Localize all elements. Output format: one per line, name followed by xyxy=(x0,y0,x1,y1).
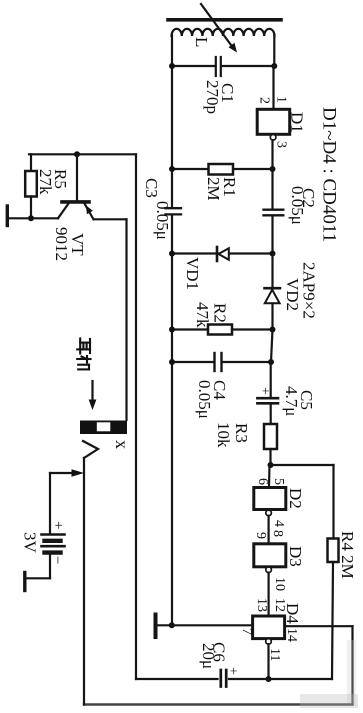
wire: VD1 row xyxy=(172,252,273,254)
node: C4 right xyxy=(268,359,274,365)
wire: right rail C2 to VD1 row xyxy=(271,216,273,253)
svg-text:D3: D3 xyxy=(286,546,305,567)
wire: left rail from coil to C3 xyxy=(171,35,173,207)
svg-text:20μ: 20μ xyxy=(199,643,218,669)
svg-text:13: 13 xyxy=(254,598,269,612)
jack contact chevron xyxy=(83,441,98,458)
node: tank left junction xyxy=(169,63,175,69)
wire: right rail C4 to C5 xyxy=(271,330,273,363)
svg-text:+: + xyxy=(225,667,240,675)
arrow to earphone jack xyxy=(91,381,93,402)
node: pin11 / C6 junction xyxy=(266,676,272,682)
svg-text:VD2: VD2 xyxy=(283,278,302,311)
wire: base bias top wire xyxy=(29,153,136,155)
gate D1 xyxy=(257,109,290,134)
svg-text:270p: 270p xyxy=(203,80,222,114)
capacitor C5 electrolytic xyxy=(257,397,278,400)
diode VD2 on right rail xyxy=(265,287,281,290)
wire: D2 input xyxy=(268,465,271,488)
D2 output bubble xyxy=(266,510,272,516)
wire: R2 row xyxy=(172,328,273,330)
svg-text:D2: D2 xyxy=(286,488,305,509)
svg-text:3V: 3V xyxy=(21,532,40,554)
wire: C4 row xyxy=(172,361,213,363)
node: VD1 left xyxy=(169,251,175,257)
wire: right rail R1 row to C2 xyxy=(271,169,273,209)
resistor R5 xyxy=(30,154,32,171)
tuning arrow across coil xyxy=(201,4,231,45)
wire: battery positive with arrow xyxy=(50,472,74,474)
svg-text:VD1: VD1 xyxy=(183,257,202,290)
svg-text:9: 9 xyxy=(253,532,268,539)
gate D2 xyxy=(254,488,286,510)
svg-text:+: + xyxy=(50,521,66,529)
wire: R1 row xyxy=(172,168,273,170)
wire: long rail from base node down to C6 xyxy=(135,154,137,679)
svg-text:R3: R3 xyxy=(232,423,251,443)
wire: D4 out down xyxy=(267,644,269,679)
resistor R3 xyxy=(264,424,277,449)
node: D2 input / feedback tap xyxy=(268,462,274,468)
svg-text:5: 5 xyxy=(271,478,286,485)
diode VD1 xyxy=(216,247,219,261)
battery 3V xyxy=(42,533,65,536)
wire: tank circuit horizontal with C1 gap xyxy=(172,65,215,67)
svg-text:6: 6 xyxy=(255,478,270,485)
resistor R4 xyxy=(328,539,339,563)
node: left rail / ground junction xyxy=(169,622,175,628)
label 耳机 (earphone) drawn strokes xyxy=(77,339,90,370)
svg-text:10: 10 xyxy=(272,577,287,591)
gate D3 xyxy=(254,544,286,567)
wire: D1 output down to R1 row xyxy=(271,140,273,169)
node: base wire junction xyxy=(74,151,80,157)
node: R2 left xyxy=(169,327,175,333)
resistor R1 xyxy=(209,164,234,175)
svg-text:L: L xyxy=(192,37,211,47)
svg-text:4: 4 xyxy=(271,520,286,527)
svg-text:0.05μ: 0.05μ xyxy=(288,186,307,225)
svg-text:D4: D4 xyxy=(283,603,302,624)
wire: right rail VD2 to R2 row xyxy=(271,304,273,330)
inductor L coil xyxy=(172,29,275,36)
svg-text:2M: 2M xyxy=(204,177,223,201)
wire: emitter to earphone rail xyxy=(94,218,127,220)
D4 output bubble xyxy=(266,639,272,645)
svg-text:7: 7 xyxy=(239,628,254,635)
gate D4 xyxy=(253,616,285,639)
wire: C6 row xyxy=(136,678,218,680)
capacitor C1 xyxy=(215,57,217,76)
svg-text:9012: 9012 xyxy=(52,227,71,261)
svg-text:2: 2 xyxy=(257,97,272,104)
svg-text:27k: 27k xyxy=(36,169,55,195)
capacitor C3 on left rail xyxy=(166,207,182,209)
svg-text:C3: C3 xyxy=(142,178,161,198)
svg-text:+: + xyxy=(257,387,272,395)
svg-text:0.05μ: 0.05μ xyxy=(153,201,172,240)
D3 output bubble xyxy=(266,567,272,573)
transistor VT 9012 xyxy=(76,154,78,200)
wire: positive rail down from contact xyxy=(83,458,85,705)
svg-text:D1: D1 xyxy=(288,112,307,133)
wire: right coil end down to tank wire xyxy=(273,35,275,66)
ground at D4 pin 7 xyxy=(154,615,158,638)
wire: feedback to R4 xyxy=(271,464,334,466)
wire: D2 out to D3 in xyxy=(268,516,270,544)
D1 output bubble xyxy=(270,135,276,141)
wire: D3 out to D4 in xyxy=(268,573,270,616)
wire: pin 7 to ground xyxy=(156,624,253,626)
svg-text:x: x xyxy=(112,440,132,449)
svg-text:R2: R2 xyxy=(211,303,230,323)
node: C4 left xyxy=(169,359,175,365)
node: R2 right xyxy=(270,327,276,333)
svg-text:8: 8 xyxy=(270,530,285,537)
node: VD1 right xyxy=(270,251,276,257)
capacitor C4 xyxy=(213,353,215,371)
capacitor C6 electrolytic xyxy=(219,670,222,687)
capacitor C2 on right rail xyxy=(264,209,284,211)
ferrite rod of antenna coil xyxy=(168,18,281,22)
wire: pin 14 to supply rail xyxy=(285,625,353,627)
svg-text:0.05μ: 0.05μ xyxy=(195,380,214,419)
node: R1 right xyxy=(270,166,276,172)
node: R1 left xyxy=(169,166,175,172)
wire: right rail VD1 row to VD2 xyxy=(271,254,273,288)
node: R5 bottom junction xyxy=(28,215,34,221)
svg-text:10k: 10k xyxy=(214,422,233,448)
wire: bottom supply return xyxy=(84,703,353,705)
svg-text:−: − xyxy=(49,556,65,564)
ground at battery xyxy=(25,577,50,579)
svg-text:1: 1 xyxy=(274,96,289,103)
svg-text:14: 14 xyxy=(284,628,299,642)
ground at R5 xyxy=(6,206,9,226)
svg-text:D1~D4 : CD4011: D1~D4 : CD4011 xyxy=(319,107,340,242)
svg-text:3: 3 xyxy=(274,141,289,148)
svg-text:2AP9×2: 2AP9×2 xyxy=(300,262,319,319)
earphone jack plug xyxy=(80,421,127,435)
svg-text:47k: 47k xyxy=(193,302,212,328)
svg-text:R4 2M: R4 2M xyxy=(338,531,357,579)
svg-text:4.7μ: 4.7μ xyxy=(282,386,301,416)
node: tank right junction xyxy=(271,63,277,69)
resistor R2 xyxy=(208,325,232,335)
wire: D1 input from tank xyxy=(272,66,274,109)
wire: left rail below C3 xyxy=(171,216,173,626)
